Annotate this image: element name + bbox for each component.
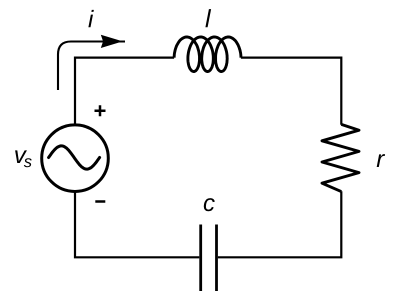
capacitor C right plate [215, 225, 218, 292]
resistor value label r [377, 154, 385, 167]
wire bottom-left segment (node between capacitor and source) [75, 191, 199, 257]
capacitor C left plate [199, 225, 202, 292]
inductor value label l [205, 9, 211, 27]
wire right-bottom segment (node between resistor and capacitor) [218, 191, 341, 257]
plus polarity mark [95, 105, 106, 116]
wire top-right segment (node between inductor and resistor) [241, 58, 341, 125]
current arrow i head [102, 36, 121, 48]
resistor R zigzag [322, 124, 359, 191]
inductor L coil [174, 37, 241, 72]
current label i [88, 10, 93, 27]
source label v [15, 150, 27, 163]
source label subscript s [24, 158, 32, 167]
capacitor value label c [204, 198, 215, 211]
current arrow i tail [58, 42, 125, 91]
wire top-left segment (node between source and inductor) [75, 58, 174, 126]
voltage source VS circle [42, 125, 109, 192]
voltage source sine wave [49, 146, 100, 169]
minus polarity mark [95, 200, 105, 203]
